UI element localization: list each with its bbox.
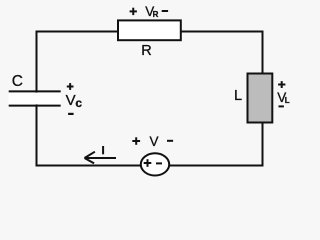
voltage source V (ellipse) bbox=[141, 153, 169, 175]
source polarity + inside bbox=[144, 159, 152, 167]
capacitor C (white body gap) bbox=[9, 93, 61, 105]
label VR above resistor bbox=[145, 4, 158, 19]
resistor R bbox=[118, 20, 181, 40]
inductor L (gray box) bbox=[248, 74, 273, 123]
svg-text:L: L bbox=[285, 96, 290, 105]
capacitor C bottom plate bbox=[9, 105, 61, 107]
svg-text:L: L bbox=[234, 88, 242, 104]
label - above resistor bbox=[162, 10, 168, 12]
svg-text:V: V bbox=[66, 92, 76, 109]
svg-text:c: c bbox=[75, 96, 82, 110]
current arrow I (pointing left) bbox=[85, 152, 117, 164]
label VL beside inductor bbox=[277, 90, 290, 105]
label - above source bbox=[167, 140, 173, 142]
label I bbox=[102, 146, 104, 154]
label - beside capacitor bbox=[68, 113, 74, 115]
wire loop (top, left, right, bottom segments) bbox=[37, 32, 263, 166]
label + beside inductor bbox=[278, 81, 285, 88]
svg-text:R: R bbox=[153, 10, 159, 19]
label VC beside capacitor bbox=[66, 92, 83, 110]
label + above resistor bbox=[130, 8, 137, 15]
label + above source bbox=[132, 137, 140, 145]
label + beside capacitor bbox=[67, 83, 74, 90]
capacitor C top plate bbox=[9, 90, 61, 92]
source polarity - inside bbox=[156, 162, 162, 164]
svg-text:R: R bbox=[141, 43, 151, 59]
label - beside inductor bbox=[279, 105, 284, 107]
svg-text:C: C bbox=[12, 73, 23, 90]
svg-text:V: V bbox=[150, 134, 159, 149]
